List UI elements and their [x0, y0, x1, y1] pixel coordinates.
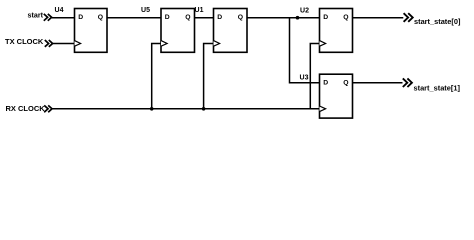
input port RX CLOCK: [6, 104, 53, 113]
junction on RX rail at U5 riser: [150, 107, 154, 111]
wire U2.Q to output: [353, 17, 404, 19]
input port TX CLOCK: [5, 37, 53, 47]
svg-text:Q: Q: [185, 14, 190, 21]
flip-flop U3: [300, 74, 353, 118]
svg-text:Q: Q: [238, 14, 243, 21]
input port start: [28, 11, 52, 21]
flip-flop U5: [141, 7, 194, 52]
flip-flop U2: [300, 7, 352, 52]
wire RX riser to U2 clock: [310, 44, 319, 109]
svg-text:U4: U4: [55, 7, 64, 14]
svg-text:start_state[1]: start_state[1]: [414, 84, 461, 93]
wire RX riser to U5 clock: [152, 44, 161, 109]
svg-text:start: start: [28, 11, 44, 20]
svg-text:Q: Q: [98, 14, 103, 21]
wire RX riser to U1 clock: [204, 44, 214, 109]
flip-flop U4: [55, 7, 107, 52]
wire TX CLOCK to U4 clock: [53, 43, 75, 45]
wire U1.Q to U2.D: [247, 17, 320, 19]
svg-text:U5: U5: [141, 7, 150, 14]
svg-text:Q: Q: [343, 80, 348, 87]
junction on RX rail at U1 riser: [202, 107, 206, 111]
svg-text:D: D: [217, 14, 222, 21]
wire RX CLOCK rail: [52, 108, 320, 110]
output port start_state[0]: [404, 13, 461, 26]
flip-flop U1: [195, 7, 247, 52]
wire start to U4.D: [52, 17, 75, 19]
wire U4.Q to U5.D: [107, 17, 161, 19]
svg-text:U2: U2: [300, 7, 309, 14]
wire U5.Q to U1.D: [195, 17, 214, 19]
svg-text:D: D: [165, 14, 170, 21]
svg-text:start_state[0]: start_state[0]: [414, 17, 461, 26]
svg-text:D: D: [323, 80, 328, 87]
svg-text:U1: U1: [195, 7, 204, 14]
svg-text:U3: U3: [300, 74, 309, 81]
wire U3.Q to output: [353, 82, 403, 84]
svg-text:D: D: [323, 14, 328, 21]
svg-text:D: D: [78, 14, 83, 21]
wire branch to U3.D: [290, 18, 320, 83]
svg-text:TX CLOCK: TX CLOCK: [5, 37, 44, 46]
svg-text:RX CLOCK: RX CLOCK: [6, 104, 46, 113]
svg-text:Q: Q: [343, 14, 348, 21]
output port start_state[1]: [403, 78, 461, 92]
junction dot on U1.Q wire: [296, 16, 300, 20]
